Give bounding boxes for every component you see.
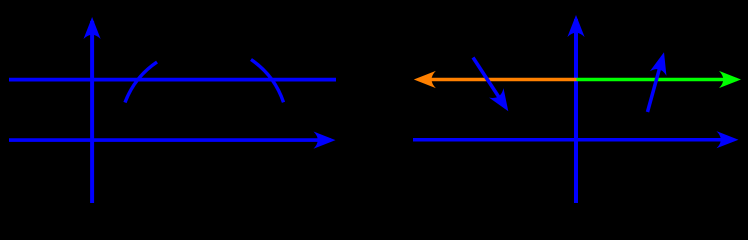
- wire: left upper horizontal line: [9, 78, 336, 82]
- left y-axis arrowhead: [84, 17, 101, 39]
- right y-axis arrowhead: [567, 15, 584, 37]
- right x-axis arrowhead: [717, 131, 739, 148]
- short blue arrow pointing up-right (head): [650, 50, 672, 76]
- green arrowhead pointing right: [719, 71, 741, 88]
- wire: left y-axis shaft: [90, 21, 94, 203]
- wire: left x-axis shaft: [9, 138, 331, 142]
- short blue arrow pointing down-right (shaft): [473, 58, 506, 108]
- short blue arrow pointing down-right (head): [489, 88, 515, 116]
- wire: right y-axis shaft: [574, 19, 578, 203]
- green right-pointing half line shaft: [577, 78, 737, 81]
- left x-axis arrowhead: [314, 132, 336, 149]
- short blue arrow pointing up-right (shaft): [648, 57, 663, 113]
- left arc segment (left piece): [125, 62, 157, 103]
- wire: right x-axis shaft: [413, 138, 734, 142]
- orange left-pointing half line shaft: [419, 78, 577, 81]
- right arc segment (right piece): [251, 60, 284, 103]
- orange arrowhead pointing left: [414, 71, 436, 88]
